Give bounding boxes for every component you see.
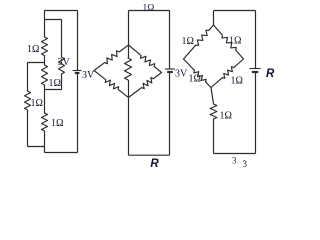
resistor 1ohm upper-right (right circuit) — [214, 25, 244, 59]
resistor 1ohm lower-right (right circuit) — [211, 59, 244, 88]
wire: middle right edge upper — [169, 11, 171, 70]
wire: inner branch vertical lower — [61, 74, 63, 90]
svg-text:1Ω: 1Ω — [51, 118, 63, 129]
wire: bridge center upper lead — [128, 45, 130, 58]
svg-text:3V: 3V — [58, 57, 71, 68]
battery/source R (right circuit) — [250, 69, 261, 73]
wire: bridge center lower lead — [128, 80, 130, 98]
svg-text:1Ω: 1Ω — [27, 44, 39, 55]
wire: branch to R3 top — [28, 62, 45, 64]
wire: node between R1 and R5 — [44, 56, 46, 66]
svg-text:R: R — [150, 158, 159, 170]
wire: left circuit right edge upper (to battery +) — [77, 11, 79, 71]
battery V1 3V (left circuit) — [73, 71, 82, 74]
wire: R3 branch vertical lower — [27, 110, 29, 147]
resistor bridge lower-left (middle circuit) — [94, 71, 129, 98]
svg-text:1Ω: 1Ω — [143, 4, 155, 14]
wire: left circuit outer top edge — [45, 10, 78, 12]
wire: left line bottom segment — [44, 131, 46, 153]
battery V2 3V (middle circuit) — [165, 69, 175, 72]
resistor R2 (left circuit inner branch) — [59, 57, 65, 74]
wire: left circuit right edge lower (from battery -) — [77, 73, 79, 153]
wire: right circuit bottom edge — [214, 153, 256, 155]
wire: middle left edge lower from bridge bottom node — [128, 98, 130, 156]
wire: top node lead (right circuit) — [213, 11, 215, 26]
resistor bridge upper-right (middle circuit) — [129, 45, 162, 73]
svg-text:3V: 3V — [82, 70, 95, 81]
wire: middle circuit top edge — [129, 10, 170, 12]
resistor R3 1ohm (far left branch) — [25, 91, 31, 110]
resistor 1ohm upper-left (right circuit) — [184, 25, 214, 59]
resistor R5 1ohm (left circuit middle) — [42, 65, 48, 85]
wire: node between R5 and R4 — [44, 85, 46, 113]
resistor bridge lower-right (middle circuit) — [129, 73, 162, 98]
svg-text:1Ω: 1Ω — [220, 111, 232, 122]
svg-text:1Ω: 1Ω — [182, 36, 194, 47]
resistor 1ohm lower-left (right circuit) — [184, 59, 212, 88]
wire: inner top edge — [45, 19, 62, 21]
resistor bridge center arm (middle circuit) — [125, 58, 132, 80]
wire: R3 branch vertical upper — [27, 63, 29, 92]
svg-text:3: 3 — [243, 159, 248, 169]
svg-text:R: R — [266, 68, 275, 80]
svg-text:1Ω: 1Ω — [49, 78, 61, 89]
wire: bottom node to series resistor (right circuit) — [211, 88, 214, 105]
svg-text:3V: 3V — [175, 69, 188, 80]
wire: junction R5-bottom to inner branch — [45, 89, 62, 91]
svg-text:3: 3 — [232, 156, 237, 166]
wire: middle right edge lower — [169, 72, 171, 155]
svg-text:1Ω: 1Ω — [229, 36, 241, 47]
resistor R1 1ohm (left circuit upper-left) — [42, 37, 48, 56]
wire: right circuit top edge — [214, 10, 256, 12]
svg-text:1Ω: 1Ω — [31, 98, 43, 109]
wire: left circuit bottom edge — [45, 152, 78, 154]
svg-text:1Ω: 1Ω — [189, 74, 201, 85]
wire: right circuit right edge upper — [255, 11, 257, 69]
wire: inner branch vertical upper — [61, 20, 63, 58]
resistor R4 1ohm (left circuit lower) — [42, 113, 48, 131]
wire: right circuit right edge lower — [255, 72, 257, 154]
wire: middle left edge upper to bridge top node — [128, 11, 130, 46]
wire: middle circuit bottom edge — [129, 154, 170, 156]
wire: left line top segment — [44, 11, 46, 38]
wire: series resistor to bottom edge (right circuit) — [213, 119, 215, 154]
wire: R3 branch return to left line — [28, 146, 45, 148]
svg-text:1Ω: 1Ω — [231, 76, 243, 87]
resistor bridge upper-left (middle circuit) — [94, 45, 129, 71]
resistor 1ohm series bottom (right circuit) — [210, 104, 217, 119]
